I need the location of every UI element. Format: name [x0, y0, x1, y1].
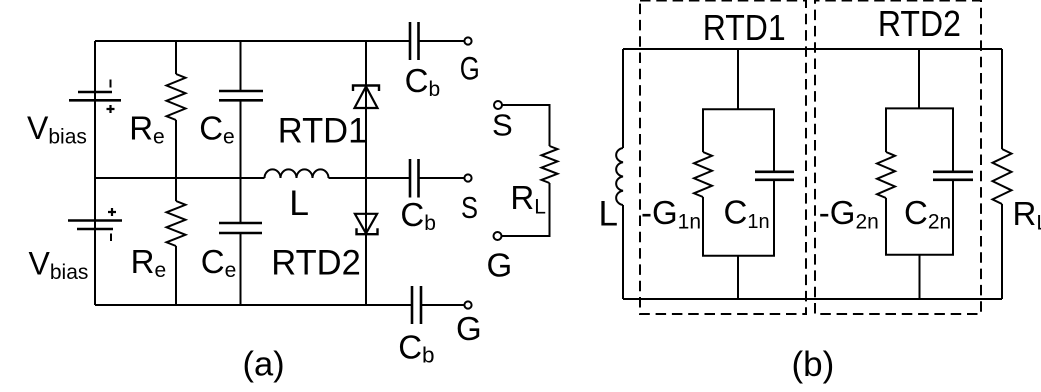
- resistor Re (top): [167, 74, 186, 120]
- wire top rail (b): [623, 48, 1002, 50]
- svg-text:L: L: [289, 183, 309, 223]
- load subcircuit: terminal S: [494, 101, 502, 109]
- capacitor Cb (middle): [410, 159, 419, 198]
- svg-text:Cb: Cb: [405, 62, 441, 101]
- wire Ce bottom column: [240, 178, 242, 305]
- wire right branch (b): [1001, 49, 1003, 299]
- wire stub bottom box1: [737, 256, 739, 299]
- wire bottom rail (b): [623, 298, 1002, 300]
- diode RTD1: [353, 86, 379, 109]
- svg-text:-G1n: -G1n: [641, 194, 701, 234]
- svg-text:Re: Re: [131, 243, 167, 282]
- svg-text:Re: Re: [129, 110, 165, 149]
- wire load bottom: [502, 183, 550, 236]
- svg-text:RTD1: RTD1: [278, 112, 368, 151]
- battery V1 minus sign: [110, 80, 112, 88]
- wire load top: [502, 105, 550, 146]
- resistor Rl: [993, 149, 1012, 204]
- resistor RL: [542, 146, 558, 183]
- svg-text:G: G: [460, 51, 480, 87]
- inductor L (b): [616, 148, 623, 205]
- svg-text:Ce: Ce: [199, 110, 235, 149]
- svg-text:RL: RL: [1013, 195, 1041, 235]
- inductor L (middle rail): [265, 169, 329, 178]
- wire stub top box1: [737, 49, 739, 109]
- capacitor Ce (bottom): [219, 223, 262, 233]
- wire top rail: [95, 40, 465, 42]
- svg-text:C1n: C1n: [724, 194, 770, 234]
- battery V1 (top Vbias): [69, 92, 121, 100]
- svg-text:RL: RL: [510, 179, 546, 219]
- svg-text:Cb: Cb: [398, 328, 434, 367]
- resistor -G2n: [877, 152, 895, 198]
- svg-text:RTD2: RTD2: [271, 244, 361, 283]
- wire stub top box2: [918, 49, 920, 108]
- resistor Re (bottom): [167, 201, 186, 246]
- wire parallel rect box2: [886, 108, 953, 254]
- diode RTD2: [355, 214, 378, 234]
- wire Re top column: [175, 41, 177, 178]
- wire stub bottom box2: [919, 255, 921, 299]
- wire left branch (b): [622, 49, 624, 299]
- svg-text:Ce: Ce: [201, 243, 237, 282]
- svg-text:(b): (b): [792, 345, 835, 384]
- capacitor Cb (top): [410, 22, 419, 60]
- battery V2 plus sign: [108, 208, 116, 216]
- resistor -G1n: [694, 152, 712, 197]
- svg-text:C2n: C2n: [904, 194, 951, 234]
- svg-text:Cb: Cb: [400, 196, 436, 235]
- dashed box RTD1: [640, 1, 806, 315]
- svg-text:Vbias: Vbias: [29, 245, 89, 284]
- terminal G (bottom): [464, 301, 471, 308]
- wire left vertical rail: [94, 41, 96, 305]
- battery V2 (bottom Vbias): [68, 221, 122, 230]
- terminal G (top): [464, 37, 471, 44]
- svg-text:G: G: [487, 246, 513, 283]
- svg-text:RTD1: RTD1: [703, 7, 786, 48]
- battery V2 minus sign: [110, 234, 112, 242]
- dashed box RTD2: [815, 1, 981, 315]
- svg-text:S: S: [461, 190, 478, 225]
- wire RTD column: [365, 41, 367, 305]
- svg-text:RTD2: RTD2: [878, 3, 961, 44]
- wire parallel rect box1: [703, 109, 774, 255]
- svg-text:S: S: [492, 108, 513, 143]
- load subcircuit: terminal G: [494, 232, 502, 240]
- svg-text:(a): (a): [243, 346, 285, 384]
- battery V1 plus sign: [107, 105, 115, 113]
- wire Ce top column: [240, 41, 242, 178]
- capacitor Ce (top): [219, 91, 263, 100]
- svg-text:G: G: [456, 310, 482, 347]
- capacitor Cb (bottom): [412, 286, 421, 324]
- svg-text:Vbias: Vbias: [27, 110, 87, 149]
- svg-text:L: L: [599, 195, 618, 234]
- capacitor C1n: [755, 172, 794, 180]
- terminal S (middle): [464, 174, 471, 181]
- svg-text:-G2n: -G2n: [819, 194, 879, 234]
- wire Re bottom column: [175, 178, 177, 305]
- wire bottom rail: [95, 304, 464, 306]
- capacitor C2n: [933, 172, 973, 180]
- wire middle rail: [95, 177, 465, 179]
